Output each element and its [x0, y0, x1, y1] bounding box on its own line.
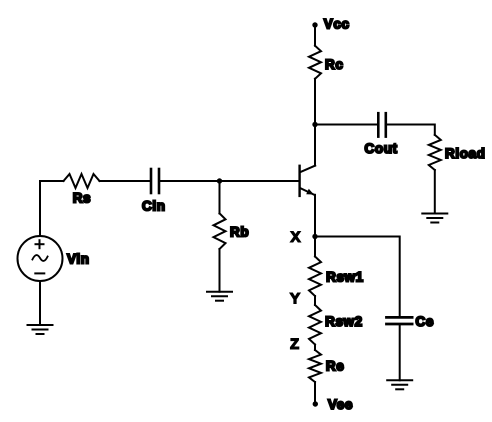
wire Vin bottom	[39, 281, 41, 325]
wire emitter to X	[314, 195, 316, 257]
node collector/Cout junction	[312, 122, 317, 127]
source Vin	[18, 236, 63, 281]
resistor Rsw1	[309, 257, 321, 297]
wire Ce to ground	[399, 325, 401, 380]
resistor Re	[309, 350, 321, 382]
wire Re to Vee	[314, 382, 316, 404]
wire Cin to base	[160, 180, 299, 182]
svg-text:Ce: Ce	[416, 314, 434, 329]
svg-text:Cin: Cin	[142, 198, 166, 213]
svg-text:Rb: Rb	[230, 225, 249, 240]
transistor Q1 emitter lead	[300, 188, 315, 195]
capacitor Cout	[378, 113, 386, 136]
svg-text:Rc: Rc	[325, 57, 343, 72]
wire Vin top to main	[39, 181, 41, 236]
svg-text:Z: Z	[291, 337, 299, 352]
svg-text:Rsw1: Rsw1	[326, 269, 364, 284]
ground below Ce	[387, 380, 412, 389]
transistor Q1 emitter arrow	[306, 189, 314, 195]
wire Rb to ground	[219, 249, 221, 292]
svg-text:Y: Y	[291, 291, 300, 306]
wire Cout to Rload	[387, 125, 435, 135]
capacitor Ce	[387, 317, 413, 324]
wire node to Rb	[219, 181, 221, 213]
wire X to Ce	[315, 237, 400, 317]
svg-text:X: X	[291, 229, 300, 244]
resistor Rload	[429, 135, 441, 170]
wire Vcc to Rc	[314, 25, 316, 46]
transistor Q1 collector lead	[300, 166, 315, 173]
node at Rb junction	[217, 178, 222, 183]
resistor Rs	[64, 174, 100, 188]
capacitor Cin	[151, 169, 159, 193]
terminal Vcc	[312, 22, 317, 27]
wire Rsw1 to Rsw2 (node Y)	[314, 296, 316, 305]
resistor Rb	[214, 213, 226, 249]
resistor Rc	[309, 46, 321, 79]
wire Rsw2 to Re (node Z)	[314, 345, 316, 351]
ground below Vin	[28, 325, 53, 334]
svg-text:Rload: Rload	[445, 146, 486, 161]
svg-text:Cout: Cout	[365, 141, 398, 156]
svg-text:Vin: Vin	[67, 251, 90, 266]
svg-text:Vee: Vee	[328, 397, 353, 412]
ground below Rload	[422, 214, 447, 223]
wire Rs to Cin	[100, 180, 151, 182]
svg-text:Rsw2: Rsw2	[325, 314, 363, 329]
svg-text:Vcc: Vcc	[324, 16, 350, 31]
transistor Q1 base bar	[298, 166, 300, 196]
svg-text:Re: Re	[326, 358, 344, 373]
svg-text:Rs: Rs	[73, 191, 91, 206]
resistor Rsw2	[309, 305, 321, 345]
terminal Vee	[313, 401, 318, 406]
wire Rc to collector	[314, 79, 316, 166]
wire collector node to Cout	[315, 124, 377, 126]
node X	[312, 234, 317, 239]
ground below Rb	[207, 292, 232, 301]
wire Rload to ground	[434, 170, 436, 214]
wire left corner to Rs	[40, 180, 64, 182]
